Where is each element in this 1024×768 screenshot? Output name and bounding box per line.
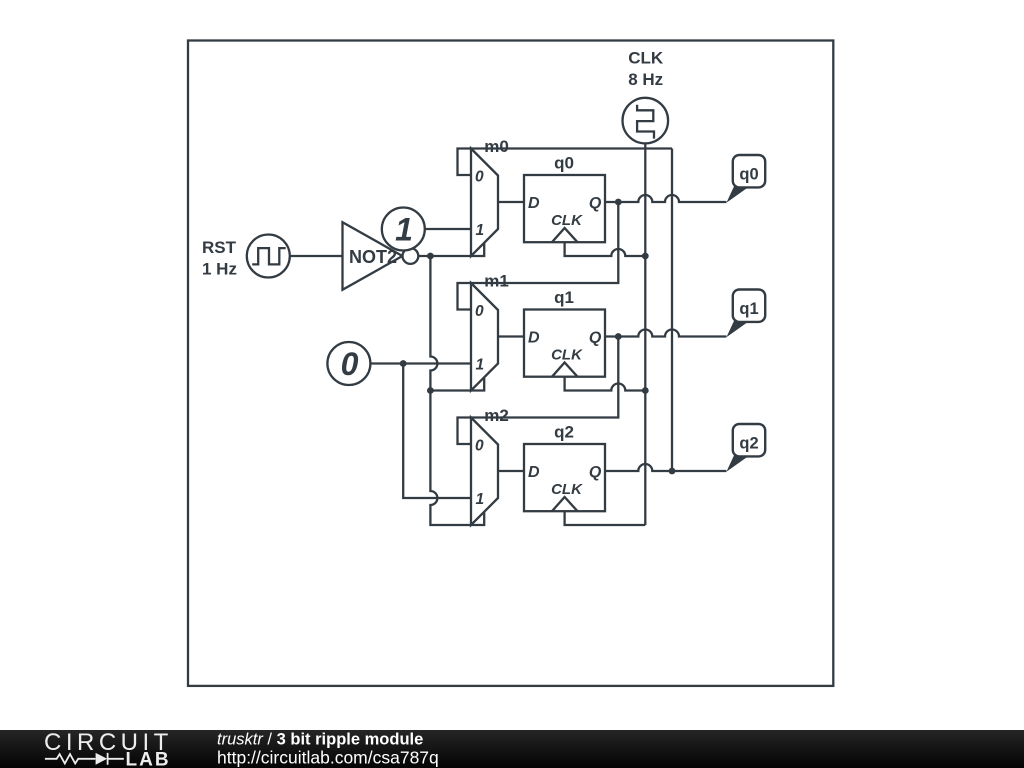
CircuitLab logo bbox=[44, 729, 173, 768]
wire q0 Q to mux m1 input 0 bbox=[458, 202, 619, 310]
wire mux m0 input 0 from feedback bbox=[458, 149, 673, 176]
junction dot feedback tap bbox=[669, 468, 676, 475]
svg-text:8 Hz: 8 Hz bbox=[628, 70, 663, 89]
mux m2 bbox=[471, 406, 509, 525]
svg-text:http://circuitlab.com/csa787q: http://circuitlab.com/csa787q bbox=[217, 747, 439, 767]
svg-text:D: D bbox=[528, 330, 540, 347]
svg-text:1: 1 bbox=[476, 222, 485, 239]
svg-text:1: 1 bbox=[476, 491, 485, 508]
svg-text:0: 0 bbox=[475, 303, 484, 320]
output flag q2 bbox=[726, 424, 765, 472]
wire NOT2 output branch to mux m1 select bbox=[430, 377, 484, 390]
wire mux m0 output to q0 D bbox=[498, 201, 524, 203]
wire q1 Q output to flag bbox=[605, 330, 726, 337]
junction dot bbox=[427, 253, 434, 260]
wire RST to NOT2 input bbox=[290, 255, 343, 257]
svg-text:1 Hz: 1 Hz bbox=[202, 259, 237, 278]
svg-text:CLK: CLK bbox=[551, 212, 583, 229]
wire NOT2 output to mux m0 select bbox=[418, 243, 484, 256]
flip-flop q0 bbox=[524, 153, 605, 242]
wire q1 CLK pin to CLK line bbox=[565, 377, 646, 391]
wire mux m1 output to q1 D bbox=[498, 335, 524, 337]
junction dot bbox=[642, 253, 649, 260]
junction dot q1 Q bbox=[615, 333, 622, 340]
svg-text:0: 0 bbox=[475, 437, 484, 454]
wire constant 0 branch to mux m2 input 1 bbox=[403, 364, 471, 499]
constant 1 source bbox=[382, 208, 425, 251]
wire q1 Q to mux m2 input 0 bbox=[458, 337, 619, 445]
svg-text:CLK: CLK bbox=[551, 481, 583, 498]
svg-text:0: 0 bbox=[475, 168, 484, 185]
svg-text:m2: m2 bbox=[484, 406, 509, 425]
svg-text:1: 1 bbox=[476, 357, 485, 374]
output flag q1 bbox=[726, 290, 765, 338]
svg-text:Q: Q bbox=[589, 330, 602, 347]
svg-text:q1: q1 bbox=[554, 288, 574, 307]
clock source CLK 8 Hz bbox=[623, 48, 669, 143]
wire CLK vertical distribution bbox=[644, 143, 646, 525]
constant 0 source bbox=[327, 342, 370, 385]
junction dot bbox=[427, 387, 434, 394]
svg-text:Q: Q bbox=[589, 195, 602, 212]
svg-text:CLK: CLK bbox=[551, 346, 583, 363]
svg-text:trusktr / 3 bit ripple module: trusktr / 3 bit ripple module bbox=[217, 731, 423, 749]
svg-text:1: 1 bbox=[395, 212, 413, 248]
svg-text:D: D bbox=[528, 195, 540, 212]
svg-text:LAB: LAB bbox=[126, 749, 171, 768]
junction dot q0 Q bbox=[615, 199, 622, 206]
junction dot bbox=[400, 360, 407, 367]
svg-text:RST: RST bbox=[202, 238, 237, 257]
svg-text:0: 0 bbox=[341, 346, 359, 382]
clock source RST 1 Hz bbox=[202, 235, 290, 279]
output flag q0 bbox=[726, 155, 765, 203]
svg-text:m0: m0 bbox=[484, 137, 509, 156]
wire q0 Q output to flag bbox=[605, 195, 726, 202]
svg-text:q2: q2 bbox=[739, 435, 758, 453]
flip-flop q2 bbox=[524, 422, 605, 511]
inverter U1 NOT2 bbox=[343, 222, 419, 290]
wire q0 CLK pin to CLK line bbox=[565, 242, 646, 256]
svg-text:q2: q2 bbox=[554, 422, 574, 441]
svg-text:Q: Q bbox=[589, 464, 602, 481]
svg-text:q0: q0 bbox=[554, 153, 574, 172]
mux m1 bbox=[471, 272, 509, 391]
wire q2 Q output to flag bbox=[605, 464, 726, 471]
svg-text:m1: m1 bbox=[484, 272, 509, 291]
svg-text:NOT2: NOT2 bbox=[349, 247, 397, 267]
wire constant 1 to mux m0 input 1 bbox=[425, 228, 471, 230]
wire feedback q2 Q up to mux m0 input 0 bbox=[671, 149, 673, 472]
footer bar bbox=[0, 730, 1024, 768]
svg-text:q1: q1 bbox=[739, 300, 758, 318]
flip-flop q1 bbox=[524, 288, 605, 377]
wire q2 CLK pin to CLK line bbox=[565, 511, 646, 525]
svg-text:q0: q0 bbox=[739, 166, 758, 184]
junction dot bbox=[642, 387, 649, 394]
svg-text:CLK: CLK bbox=[628, 48, 664, 67]
svg-text:D: D bbox=[528, 464, 540, 481]
wire NOT2 output down to mux m2 select bbox=[430, 256, 484, 525]
wire constant 0 to mux m1 input 1 bbox=[370, 362, 471, 364]
wire mux m2 output to q2 D bbox=[498, 470, 524, 472]
mux m0 bbox=[471, 137, 509, 256]
